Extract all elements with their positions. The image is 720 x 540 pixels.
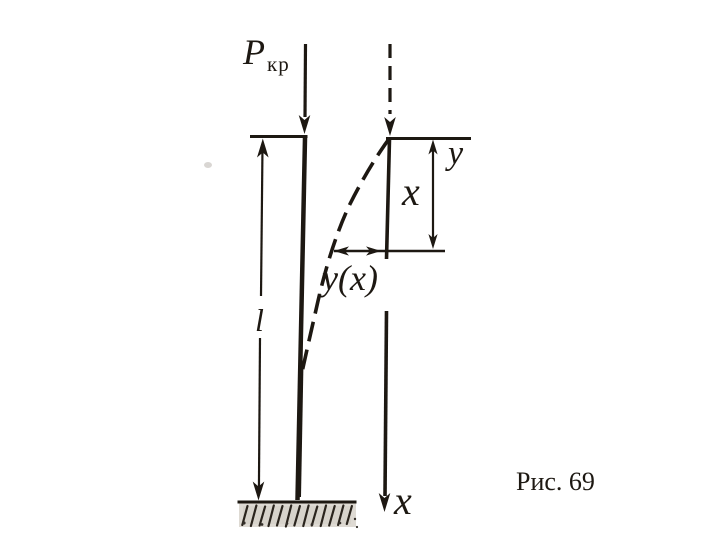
top-right horizontal line (y axis) (386, 137, 471, 140)
load line (dashed, onto deflected column) (388, 44, 391, 114)
svg-text:x: x (393, 478, 412, 523)
x dimension double arrow (432, 150, 434, 240)
svg-text:Рис. 69: Рис. 69 (516, 467, 595, 496)
ground hatch strokes (242, 506, 352, 527)
svg-text:y(x): y(x) (319, 258, 378, 298)
svg-text:x: x (401, 169, 420, 214)
svg-text:l: l (255, 302, 264, 338)
ground hatching wash (239, 504, 356, 528)
y(x) dimension line (334, 250, 445, 252)
scan speck (204, 162, 212, 168)
merged deflected shape along lower column (300, 362, 303, 497)
top-left horizontal line (250, 135, 308, 138)
column (straight) (298, 138, 306, 500)
deflected shape (dashed curve) (300, 139, 389, 382)
load arrow P (solid, onto straight column) (303, 44, 307, 117)
svg-text:кр: кр (267, 52, 290, 76)
ground line (238, 501, 357, 504)
svg-text:y: y (445, 135, 464, 172)
l dimension line (261, 146, 263, 296)
svg-text:P: P (242, 32, 265, 72)
x axis line (down) (387, 139, 390, 259)
